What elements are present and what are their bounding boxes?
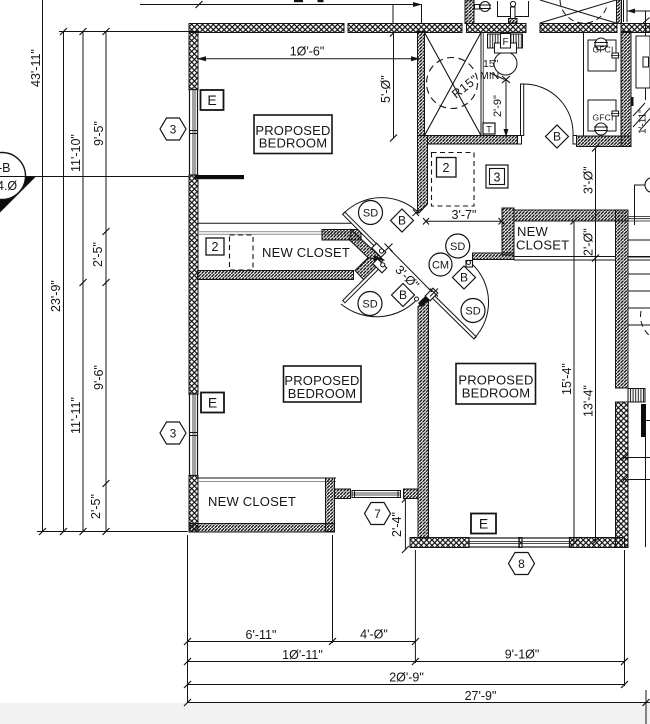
svg-text:11'-10": 11'-10"	[69, 134, 83, 172]
svg-text:2'-Ø": 2'-Ø"	[582, 228, 596, 256]
slash ticks top tie	[60, 28, 67, 35]
stair tread 5	[629, 307, 650, 309]
left closet north angled wall to point	[350, 230, 384, 261]
wall: door jamb latch side of bath door	[573, 136, 577, 145]
extension line closet east wall	[332, 535, 334, 643]
small black block on east wall	[631, 97, 634, 106]
room label box: proposed bedroom bottom-middle	[456, 364, 536, 405]
upper unit toilet base	[509, 19, 518, 24]
hexagon 3 lower window	[160, 422, 186, 444]
egress tag E upper window	[201, 90, 224, 110]
door A hinge jamb block	[372, 243, 386, 257]
dashed rect in hall	[432, 153, 475, 207]
svg-text:3: 3	[170, 123, 177, 137]
door C solid jamb fill at bedroom2 wall tip	[418, 293, 433, 308]
adjacent unit closet rectangle	[636, 36, 650, 88]
extension line bedroom2 west wall	[414, 550, 416, 663]
svg-text:3: 3	[494, 171, 501, 185]
tag box T (toilet)	[483, 123, 495, 134]
wall: top exterior segment A	[189, 24, 344, 33]
svg-text:2'-5": 2'-5"	[89, 494, 103, 519]
svg-text:SD: SD	[362, 299, 377, 311]
smoke detector SD upper-left bedroom	[359, 201, 383, 225]
svg-text:3: 3	[170, 427, 177, 441]
stair dashed arc	[641, 311, 650, 336]
diamond B bath landing	[546, 125, 569, 148]
stair tread 6	[629, 324, 650, 326]
vanity sink counter upper	[588, 40, 616, 71]
wall: top exterior segment B	[348, 24, 462, 33]
dashed rect in left closet	[230, 235, 254, 270]
dim line 23'-9" vertical	[63, 32, 65, 532]
toilet tank	[495, 43, 517, 53]
svg-text:B: B	[553, 130, 561, 144]
dim line 11'-10"/11'-11" vertical	[82, 32, 84, 532]
wall: top exterior segment C	[467, 24, 527, 33]
smoke detector SD hall	[446, 234, 470, 258]
door B swing arc	[341, 300, 417, 317]
wall: bottom exterior wall segment west	[410, 538, 469, 548]
svg-text:2Ø'-9": 2Ø'-9"	[389, 671, 424, 685]
svg-text:4.Ø: 4.Ø	[0, 179, 17, 193]
wall: top exterior segment E	[621, 24, 650, 33]
fan louvre left	[488, 34, 501, 48]
window W4 bottom wall east pane	[522, 538, 570, 547]
svg-text:1Ø'-6": 1Ø'-6"	[290, 45, 325, 59]
wall: bottom exterior wall segment east	[570, 538, 625, 548]
diamond B lower-left	[392, 284, 415, 307]
dim 5'-0" vertical line	[393, 33, 395, 138]
slash ticks bottom tie	[39, 528, 46, 535]
wall: left exterior middle segment	[189, 175, 198, 395]
svg-text:E: E	[207, 92, 216, 108]
wall: east wall window stub	[628, 389, 645, 403]
electric panel thick bar	[641, 404, 646, 437]
keynote leader circle at page edge	[645, 178, 650, 193]
wall: bathroom west wall	[418, 32, 425, 136]
svg-text:BEDROOM: BEDROOM	[288, 386, 357, 401]
wall: left exterior lower segment	[189, 476, 198, 533]
porch edge line upper	[623, 457, 650, 459]
shower glass edge double line	[480, 33, 482, 136]
diamond B right	[453, 266, 476, 289]
vanity counter edge line	[583, 33, 585, 137]
dim line 9'-5"/2'-5" vertical	[105, 32, 107, 532]
diamond B upper	[391, 209, 414, 232]
extension line east wall face	[624, 550, 626, 686]
bottom page gray strip	[0, 703, 650, 724]
faucet circle lower	[595, 123, 607, 135]
svg-text:2: 2	[212, 240, 219, 254]
tag box 2 in left closet	[206, 238, 224, 255]
shower enclosure X brace line 1	[425, 33, 482, 136]
svg-text:B: B	[399, 288, 407, 302]
door B latch pin at wall tip	[415, 297, 419, 301]
upper unit shower X line 1	[540, 0, 616, 23]
svg-text:8: 8	[518, 557, 525, 571]
upper unit shower dashed arc	[560, 0, 607, 23]
dim 2'-4" at south opening	[404, 499, 406, 550]
top tie line	[59, 31, 189, 33]
stair tread 3	[629, 273, 650, 275]
svg-text:7: 7	[374, 507, 381, 521]
carbon monoxide CM hall	[429, 253, 452, 276]
svg-text:1'-11": 1'-11"	[638, 109, 649, 134]
door C swing arc	[472, 264, 489, 338]
svg-text:3'-7": 3'-7"	[452, 208, 477, 222]
dim line 43'-11" vertical	[42, 0, 44, 532]
bathroom door swing arc	[524, 84, 573, 136]
door A hinge pin	[379, 249, 383, 253]
svg-text:SD: SD	[450, 241, 465, 253]
opening east jamb flange	[404, 489, 419, 499]
upper unit dim line across top	[140, 4, 422, 6]
wall: vanity south wall	[577, 136, 632, 147]
svg-text:27'-9": 27'-9"	[465, 689, 497, 703]
svg-text:15": 15"	[483, 58, 499, 70]
svg-text:15'-4": 15'-4"	[560, 363, 574, 395]
door B hinge pin	[381, 263, 385, 267]
window W2 lower on left wall	[190, 394, 198, 476]
right closet west wall	[502, 208, 514, 255]
stair tread 1	[629, 239, 650, 241]
section marker circle -B 4.0	[0, 153, 26, 200]
svg-text:5'-Ø": 5'-Ø"	[379, 75, 393, 103]
svg-text:F: F	[502, 37, 508, 48]
svg-text:NEW CLOSET: NEW CLOSET	[262, 245, 350, 260]
svg-text:9'-5": 9'-5"	[92, 121, 106, 146]
door C hinge jamb block	[425, 288, 438, 301]
svg-text:SD: SD	[465, 306, 480, 318]
svg-text:2'-4": 2'-4"	[390, 512, 404, 537]
top dim arrow right	[413, 2, 422, 7]
slash ticks mid points	[103, 228, 110, 235]
dim row 4 line	[188, 702, 650, 704]
smoke detector SD bottom-middle bedroom	[461, 299, 485, 323]
section cut line through left wall	[195, 175, 245, 179]
upper unit shower X line 2	[540, 0, 616, 23]
bottom-left closet top edge double line	[198, 477, 336, 479]
window W1 upper on left wall	[190, 90, 198, 176]
dim 10'-6" line with arrows	[197, 58, 420, 60]
wall: bottom exterior wall mullion	[519, 538, 523, 548]
keynote leader line	[635, 185, 646, 225]
svg-text:2'-5": 2'-5"	[91, 242, 105, 267]
svg-text:1Ø'-11": 1Ø'-11"	[282, 648, 323, 662]
fan label box F	[501, 34, 511, 49]
wall: left exterior upper segment	[189, 32, 198, 91]
left closet solid tip wedge	[374, 256, 383, 262]
egress tag E lower window	[201, 393, 224, 413]
door A swing arc	[344, 198, 420, 214]
svg-text:E: E	[479, 516, 488, 532]
top dim extension line a	[392, 5, 394, 24]
svg-text:11'-11": 11'-11"	[69, 397, 83, 434]
svg-text:4'-Ø": 4'-Ø"	[360, 628, 388, 642]
svg-text:BEDROOM: BEDROOM	[462, 386, 531, 401]
top dim slash tick at wall line	[196, 1, 203, 8]
dim 3'-0" diagonal corridor	[390, 250, 432, 293]
dim row 1 line	[188, 641, 416, 643]
hexagon 8 bottom windows	[509, 553, 535, 575]
svg-text:CLOSET: CLOSET	[516, 238, 569, 253]
svg-text:43'-11": 43'-11"	[29, 49, 43, 87]
tag box 2 in hall	[437, 158, 457, 178]
door A leaf (to upper-left bedroom)	[343, 212, 383, 252]
upper unit knob circle	[480, 2, 490, 12]
shaft diagonal hatch lines	[633, 103, 645, 116]
vanity sink counter lower	[588, 100, 616, 131]
svg-text:T: T	[486, 125, 492, 135]
svg-text:CM: CM	[432, 260, 449, 272]
svg-text:B: B	[398, 214, 406, 228]
upper right dim line stub	[627, 10, 650, 12]
svg-text:9'-1Ø": 9'-1Ø"	[505, 648, 540, 662]
dim row 2 line	[188, 661, 625, 663]
left closet south angled wall to point	[355, 258, 384, 280]
svg-text:NEW CLOSET: NEW CLOSET	[208, 494, 296, 509]
svg-text:9'-6": 9'-6"	[92, 365, 106, 390]
bottom-left closet east wall	[326, 478, 335, 532]
dim 2'-9" tick	[502, 76, 510, 83]
top dim extension line b	[421, 5, 423, 24]
outlet symbol lower	[612, 111, 619, 116]
bottom tie line	[37, 531, 188, 533]
door C hinge block on closet foot	[466, 261, 473, 268]
hexagon 3 upper window	[160, 118, 186, 140]
latch tick at bath wall tip	[413, 210, 420, 217]
door B leaf (to bottom-left bedroom)	[343, 262, 383, 302]
svg-text:3'-Ø": 3'-Ø"	[582, 166, 596, 194]
wall: stair-side east wall upper (diagonal hatch)	[616, 210, 629, 388]
left closet top edge line	[198, 222, 352, 224]
outlet symbol upper	[612, 53, 619, 58]
toilet bowl	[494, 52, 517, 75]
bottom-left closet east wall flange	[335, 489, 351, 499]
extension line left wall face	[187, 535, 189, 703]
left closet south wall	[198, 271, 354, 280]
faucet circle upper	[595, 38, 607, 50]
extension line far right	[645, 690, 647, 724]
wall: door jamb hinge side of bath door	[518, 136, 522, 145]
upper unit toilet flush circle	[510, 1, 515, 6]
wall: south exterior wall of closet (bottom-left)	[189, 524, 335, 533]
svg-text:B: B	[460, 271, 468, 285]
panel stub line	[646, 420, 650, 422]
left closet north wall stub	[322, 230, 361, 241]
shower clearance dashed circle R15	[427, 58, 478, 109]
wall: east exterior wall lower (crosshatch)	[616, 402, 629, 548]
dim 2'-9" line with bottom arrow	[505, 80, 507, 138]
svg-text:-B: -B	[0, 161, 11, 175]
right closet bottom double line	[514, 256, 616, 258]
adjacent structure vertical edge	[645, 437, 647, 547]
porch edge line lower	[623, 479, 650, 481]
svg-text:E: E	[208, 395, 217, 411]
dim row 3 line	[188, 684, 625, 686]
svg-text:GFCI: GFCI	[592, 113, 613, 123]
svg-text:2'-9": 2'-9"	[492, 95, 504, 117]
shower enclosure X brace line 2	[425, 33, 482, 136]
svg-text:2: 2	[443, 161, 450, 175]
egress tag E bottom window	[471, 514, 496, 534]
bathroom door leaf	[521, 84, 524, 136]
stair tread 2	[629, 256, 650, 258]
wall: bathroom south wall left of door	[428, 136, 518, 145]
wall: bathroom east wall	[621, 32, 631, 147]
svg-text:GFCI: GFCI	[592, 45, 613, 55]
svg-text:BEDROOM: BEDROOM	[259, 136, 328, 151]
left closet shelf double line (gray)	[198, 231, 348, 233]
stair tread 4	[629, 290, 650, 292]
clearance leader line	[490, 73, 505, 80]
smoke detector SD bottom-left bedroom	[358, 292, 382, 316]
opening symbol south of bedroom2 (hex 7 opening)	[352, 491, 401, 498]
dim column x596: 3'-0", 2'-0", 13'-4"	[595, 148, 597, 541]
dim 3'-7" line	[426, 220, 502, 222]
wall: bedroom2 west wall with angled top	[418, 297, 429, 539]
upper unit toilet stem	[511, 7, 516, 19]
window W3 bottom wall west pane	[469, 538, 519, 547]
room label box: proposed bedroom bottom-left	[284, 366, 362, 402]
svg-text:23'-9": 23'-9"	[49, 280, 63, 312]
fan louvre right	[511, 34, 523, 48]
right closet west wall foot	[473, 253, 515, 260]
right closet north wall	[514, 210, 628, 221]
svg-text:13'-4": 13'-4"	[582, 385, 596, 417]
section line to wall	[0, 176, 189, 178]
door C hinge pin	[467, 261, 471, 265]
tag box 3 in hall (double border)	[486, 165, 508, 188]
section marker arrow solid	[0, 177, 36, 213]
upper unit wall stub above top wall	[465, 0, 474, 24]
upper unit wall line pair right	[617, 0, 622, 24]
wall: top exterior segment D	[540, 24, 617, 33]
svg-text:SD: SD	[363, 208, 378, 220]
wall: hall stub below bathroom with angled tip	[418, 136, 428, 214]
door B hinge jamb block	[373, 259, 387, 273]
door C leaf (to bottom-middle bedroom)	[432, 295, 476, 339]
landing edge triple line right of east wall	[628, 216, 650, 218]
cut-off text marks at page top	[294, 0, 303, 2]
hexagon 7 opening	[365, 503, 391, 525]
upper unit paper holder stem	[475, 5, 480, 10]
room label box: proposed bedroom upper-left	[254, 115, 332, 154]
upper unit toilet tank rect	[498, 1, 529, 17]
svg-text:6'-11": 6'-11"	[246, 628, 277, 642]
dim 15'-4" line	[573, 221, 575, 543]
